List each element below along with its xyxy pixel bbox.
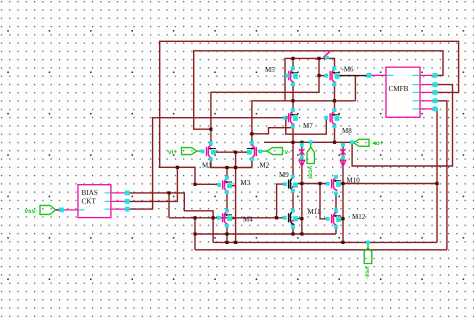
svg-text:M10: M10	[347, 177, 361, 185]
svg-text:◂o+: ◂o+	[372, 140, 384, 147]
svg-text:BIAS: BIAS	[82, 189, 98, 197]
svg-text:M3: M3	[241, 179, 251, 187]
svg-text:M1: M1	[202, 162, 212, 170]
svg-text:M9: M9	[279, 171, 289, 179]
svg-text:vcm: vcm	[307, 166, 314, 179]
svg-text:M12: M12	[352, 213, 366, 221]
svg-text:M5: M5	[265, 66, 275, 74]
svg-text:M8: M8	[342, 127, 352, 135]
svg-text:M11: M11	[308, 208, 321, 216]
svg-text:CKT: CKT	[82, 198, 97, 206]
svg-text:M2: M2	[260, 162, 270, 170]
svg-text:CMFB: CMFB	[389, 85, 409, 93]
svg-text:-M6: -M6	[342, 66, 355, 74]
svg-text:M4: M4	[243, 216, 253, 224]
svg-text:vss·: vss·	[363, 267, 370, 280]
svg-text:vi+: vi+	[168, 149, 177, 156]
svg-text:vss·: vss·	[25, 208, 38, 215]
svg-text:M7: M7	[303, 122, 313, 130]
svg-text:v-: v-	[285, 149, 291, 156]
